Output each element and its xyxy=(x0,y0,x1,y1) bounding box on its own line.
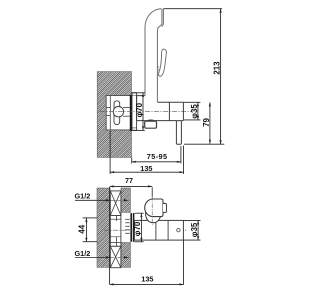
hand shower handset (side) xyxy=(145,9,163,102)
knob end tab xyxy=(163,203,167,212)
svg-text:135: 135 xyxy=(141,275,153,284)
main axis bottom view xyxy=(104,229,186,231)
trigger lever of handset xyxy=(159,49,167,76)
dim 213 xyxy=(164,8,223,10)
bottom reference ext line xyxy=(184,143,224,145)
dim 77 xyxy=(151,187,153,197)
wall section (hatched) top view xyxy=(97,72,131,158)
screw hole xyxy=(177,229,180,232)
svg-text:213: 213 xyxy=(213,61,222,75)
wall hatched band right lower xyxy=(121,243,130,268)
svg-text:79: 79 xyxy=(202,118,211,127)
supply pipe lower (crossed box) xyxy=(110,246,121,268)
valve cartridge midsection xyxy=(110,216,121,247)
dim 135 bottom view xyxy=(183,240,185,284)
svg-text:φ35: φ35 xyxy=(190,222,199,237)
trigger pivot dashes xyxy=(157,66,159,77)
centerline top view xyxy=(100,110,192,112)
knob left side (ellipse) xyxy=(145,199,162,217)
handle left connector xyxy=(106,107,110,109)
dim phi35 top view xyxy=(184,102,200,120)
svg-text:φ70: φ70 xyxy=(133,221,142,236)
dim 135 top view xyxy=(109,131,111,174)
svg-text:φ70: φ70 xyxy=(135,102,144,117)
supply pipe upper (crossed box) xyxy=(110,191,121,216)
svg-text:77: 77 xyxy=(125,176,133,185)
svg-text:φ35: φ35 xyxy=(190,104,199,119)
cross handle (side view) xyxy=(113,101,123,125)
pipe axis lower xyxy=(110,256,131,258)
pipe axis upper xyxy=(110,199,131,201)
long extension line left xyxy=(109,187,111,285)
svg-text:44: 44 xyxy=(77,224,86,233)
wall hatched band left xyxy=(97,188,110,267)
diverter bump under body xyxy=(147,120,154,121)
wall hatched band right upper xyxy=(121,188,130,212)
svg-text:135: 135 xyxy=(140,164,152,173)
svg-text:75-95: 75-95 xyxy=(147,152,168,161)
G1/2 upper leader xyxy=(75,199,110,201)
outlet drop tube xyxy=(176,121,181,145)
G1/2 lower leader xyxy=(75,256,110,258)
escutcheon flange (section, dark) xyxy=(130,213,132,242)
recess cutout box in wall xyxy=(106,96,131,130)
dim 79 xyxy=(209,102,211,143)
svg-text:G1/2: G1/2 xyxy=(75,192,91,201)
valve body (bottom view) xyxy=(134,220,183,240)
rough-in housing front edge xyxy=(109,96,111,130)
knob vertical axis xyxy=(151,197,153,226)
dim phi35 bottom view xyxy=(184,219,201,221)
dim 75-95 xyxy=(131,158,133,164)
dim phi70 bottom view xyxy=(135,212,144,214)
handle knob face plate xyxy=(153,199,163,217)
valve body (top view) xyxy=(137,96,184,121)
wall face plate (thick bar) xyxy=(130,95,132,131)
dim phi70 top view xyxy=(132,93,145,131)
escutcheon flange (side) xyxy=(132,93,137,131)
handle stem xyxy=(123,107,130,109)
svg-text:G1/2: G1/2 xyxy=(75,249,91,258)
handle knob skirt xyxy=(146,209,161,223)
thread ticks behind escutcheon xyxy=(125,219,130,233)
dim 44 xyxy=(83,217,98,219)
